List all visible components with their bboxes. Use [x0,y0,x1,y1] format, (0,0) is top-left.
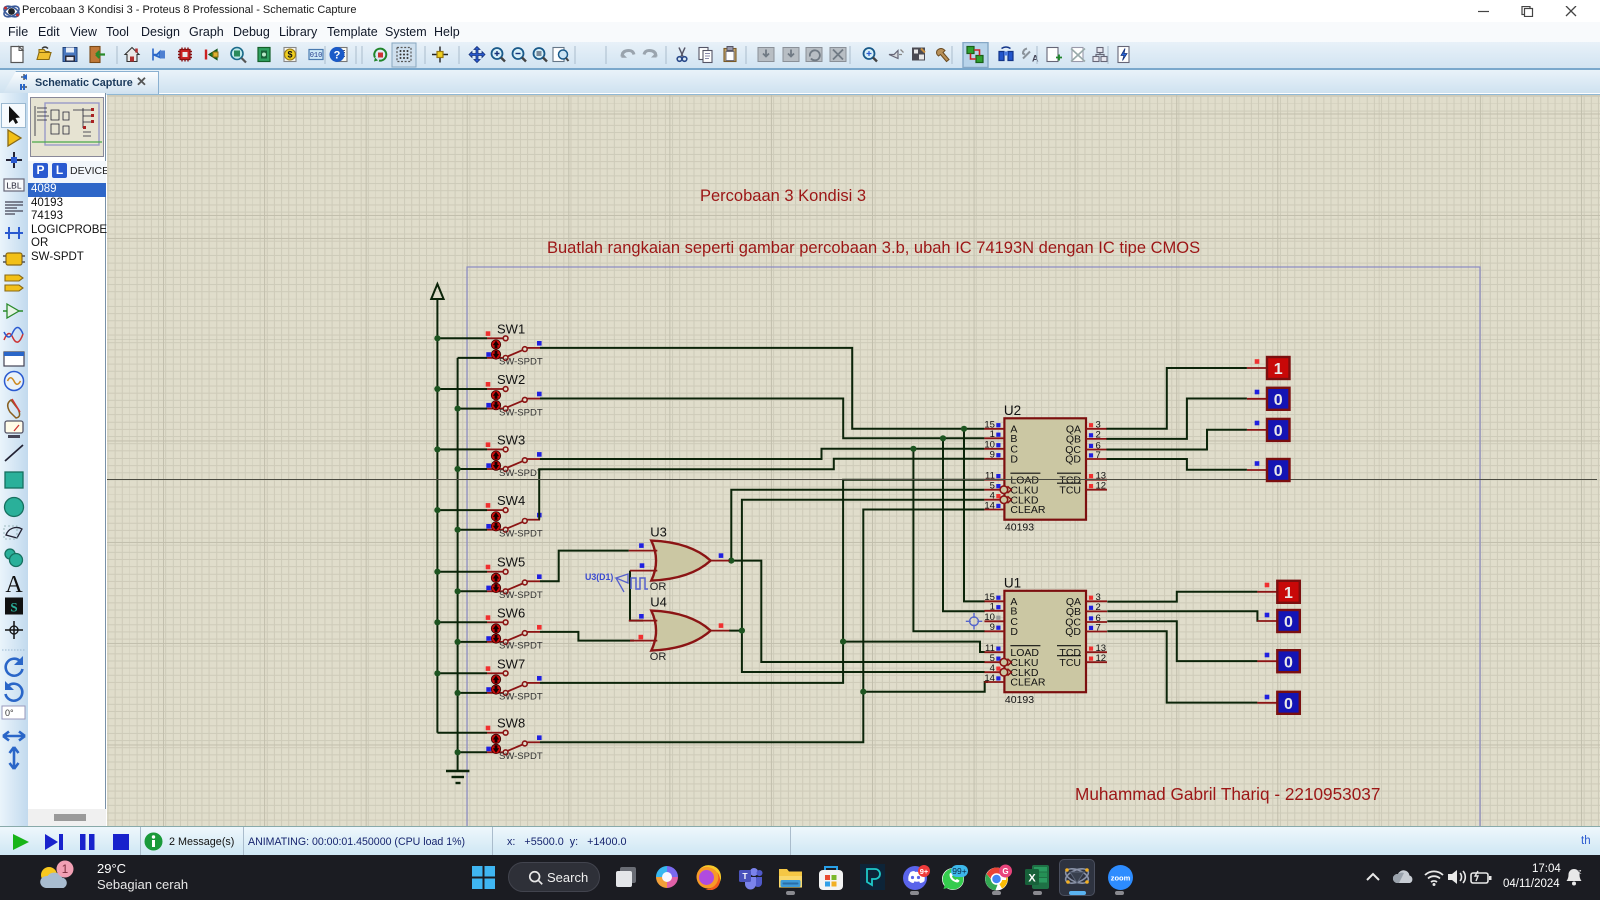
taskbar app icons group 2 [0,854,1,856]
svg-text:SW1: SW1 [497,321,525,336]
power symbol +V [431,284,443,299]
wire U3 output to U2 pin 5 CLKU [729,490,984,561]
mouse cursor crosshair [966,613,983,630]
wire long horizontal net at y=479.5 [107,479,1597,481]
junction power rail / SW1 [434,335,440,341]
svg-text:zoom: zoom [1111,874,1131,883]
svg-text:010: 010 [310,52,323,60]
pin 2 QB [1086,438,1107,440]
pin 1 B [984,610,1004,612]
pin 3 QA [1086,600,1107,602]
svg-text:X: X [1028,873,1036,885]
pin 15 A [984,428,1004,430]
pin 14 CLEAR [984,509,1004,511]
IC U2 40193 counter [984,403,1107,534]
junction ground rail / SW4 [455,527,461,533]
junction CLEAR bus [860,689,866,695]
svg-text:0: 0 [1274,423,1283,440]
copilot [654,864,680,890]
junction power rail / SW5 [434,569,440,575]
wire SW8 pole to CLEAR bus [540,510,984,743]
junction power rail / SW3 [434,446,440,452]
wire U2 QD to logic probe P4 [1106,459,1247,470]
svg-text:9+: 9+ [920,867,929,876]
svg-text:z: z [1578,869,1582,876]
svg-text:1: 1 [1284,585,1293,602]
pin 11 LOAD [984,651,1004,653]
svg-text:0: 0 [1274,463,1283,480]
overview minimap [30,97,104,157]
zoom at 1107 [1107,864,1134,891]
pin 13 TCD [1086,479,1107,481]
svg-text:14: 14 [984,673,995,684]
svg-text:0: 0 [1284,654,1293,671]
svg-text:SW4: SW4 [497,493,525,508]
svg-text:0: 0 [1284,696,1293,713]
excel at 1025 [1025,864,1050,890]
pin 2 QB [1086,610,1107,612]
discord at 902 [902,864,930,892]
svg-text:40193: 40193 [1005,522,1034,534]
firefox [695,864,721,890]
wire U2 QA to logic probe P1 [1106,368,1247,429]
svg-text:QD: QD [1065,626,1081,638]
svg-text:9: 9 [990,450,995,461]
wire U3 input B riser to U4 input A [630,571,643,621]
pin 7 QD [1086,458,1107,460]
svg-text:SW2: SW2 [497,372,525,387]
svg-text:1: 1 [62,864,68,876]
tray [1364,869,1384,885]
schematic sheet border [467,267,1480,867]
op-amp style OR gate U3 [629,525,730,593]
svg-text:U3(D1): U3(D1) [585,572,613,582]
wire SW3 pole to U2 pin 10 C with branch to U1 D [540,449,984,459]
svg-text:SW-SPDT: SW-SPDT [499,468,543,479]
logic probe showing 0 [1247,388,1290,410]
junction U4 output node [739,628,745,634]
weather [38,860,84,896]
switch SW8 (SW-SPDT) [437,716,542,762]
pin 12 TCU [1086,661,1107,663]
svg-text:SW3: SW3 [497,432,525,447]
pin 11 LOAD [984,479,1004,481]
wire SW6 pole to U4 input B [540,632,634,641]
junction LOAD bus [840,639,846,645]
logic probe showing 0 [1257,692,1300,714]
junction power rail / SW6 [434,619,440,625]
junction node C bus [910,446,916,452]
svg-text:D: D [1010,626,1018,638]
svg-text:?: ? [334,50,341,62]
svg-text:12: 12 [1096,653,1107,664]
pin 7 QD [1086,631,1107,633]
junction ground rail / SW7 [455,690,461,696]
pin 3 QA [1086,428,1107,430]
svg-text:2: 2 [1096,430,1101,441]
wire SW5 pole to U3 input A [540,551,629,582]
svg-text:40193: 40193 [1005,694,1034,706]
svg-text:1: 1 [990,429,995,440]
svg-text:$: $ [287,50,292,60]
wire SW7 pole to LOAD bus [540,480,984,683]
svg-text:Buatlah rangkaian seperti gamb: Buatlah rangkaian seperti gambar percoba… [547,239,1200,257]
clock generator probe U3(D1) [585,572,648,592]
wire U2 QC to logic probe P3 [1106,430,1247,450]
wire U2 QB to logic probe P2 [1106,399,1247,439]
svg-text:TCU: TCU [1059,657,1081,669]
svg-text:SW-SPDT: SW-SPDT [499,751,543,762]
pin 1 B [984,437,1004,439]
svg-text:12: 12 [1096,481,1107,492]
pin 9 D [984,458,1004,460]
junction U3 output node [728,558,734,564]
junction node A bus [961,426,967,432]
svg-text:SW-SPDT: SW-SPDT [499,692,543,703]
pin 6 QC [1086,621,1107,623]
svg-text:U3: U3 [650,525,667,540]
task view [613,864,639,890]
junction node B bus [940,435,946,441]
search pill [508,862,600,892]
junction power rail / SW4 [434,507,440,513]
wire branch U2 A to U1 A [964,429,985,602]
wire U3 output branch to U1 pin 5 CLKU [731,561,984,662]
wire U1 QB to logic probe P6 [1107,611,1258,621]
svg-text:1: 1 [1274,361,1283,378]
svg-text:A: A [5,572,23,598]
chrome at 984 [984,864,1012,892]
svg-text:CLEAR: CLEAR [1010,677,1045,689]
pin 14 CLEAR [984,681,1004,683]
pin 4 CLKD [984,671,1004,673]
device list [28,183,106,264]
wire CLEAR bus branch to U1 pin 14 [863,682,988,692]
op-amp style OR gate U4 [629,595,730,663]
svg-text:SW-SPDT: SW-SPDT [499,407,543,418]
svg-text:QD: QD [1065,454,1081,466]
junction ground rail / SW2 [455,406,461,412]
svg-text:1: 1 [990,602,995,613]
svg-text:SW-SPDT: SW-SPDT [499,357,543,368]
switch SW1 (SW-SPDT) [437,321,542,367]
U3 input/output state squares [639,543,644,548]
svg-text:TCU: TCU [1059,484,1081,496]
svg-text:G: G [1002,867,1008,876]
svg-text:U4: U4 [650,595,667,610]
svg-text:T: T [742,871,748,881]
svg-text:14: 14 [984,500,995,511]
svg-text:OR: OR [650,581,667,593]
switch SW5 (SW-SPDT) [437,555,542,601]
svg-text:9: 9 [990,622,995,633]
bottom scrollbar [28,809,106,826]
pin 5 CLKU [984,489,1004,491]
wire U1 QA to logic probe P5 [1107,592,1257,602]
start [472,866,495,889]
switch SW3 (SW-SPDT) [437,432,542,478]
svg-text:7: 7 [1096,450,1101,461]
svg-text:7: 7 [1096,622,1101,633]
file explorer at x 778 [778,866,803,890]
switch SW6 (SW-SPDT) [437,605,542,651]
svg-text:SW8: SW8 [497,716,525,731]
U4 input/output state squares [639,614,644,619]
pin 10 C [984,448,1004,450]
pin 13 TCD [1086,651,1107,653]
wire branch U2 B to U1 B [943,438,985,611]
svg-text:SW7: SW7 [497,656,525,671]
ground symbol [446,770,469,772]
svg-text:A: A [1032,54,1039,64]
wire U4 output to U2 pin 4 CLKD [729,500,984,631]
junction ground rail / SW8 [455,749,461,755]
svg-text:99+: 99+ [952,866,966,876]
junction ground rail / SW6 [455,639,461,645]
pin 4 CLKD [984,499,1004,501]
junction power rail / SW2 [434,386,440,392]
svg-text:SW-SPDT: SW-SPDT [499,590,543,601]
logic probe showing 1 [1257,581,1300,603]
svg-text:D: D [1010,453,1018,465]
pin 12 TCU [1086,489,1107,491]
wire U4 output branch to U1 pin 4 CLKD [742,631,985,672]
proteus active at 1059 [1059,859,1095,896]
P L DEVICES header [28,161,106,183]
svg-text:Muhammad Gabril Thariq - 22109: Muhammad Gabril Thariq - 2210953037 [1075,784,1380,804]
logic probe showing 0 [1257,610,1300,632]
logic probe showing 0 [1257,650,1300,672]
switch SW4 (SW-SPDT) [437,493,542,539]
wire U1 QC to logic probe P7 [1107,621,1257,661]
wire power rail vertical [436,338,438,732]
junction ground rail / SW3 [455,466,461,472]
wire SW1 pole to U2 pin 15 A with branch to U1 [540,348,984,429]
svg-text:Percobaan 3 Kondisi 3: Percobaan 3 Kondisi 3 [700,187,866,205]
pin 10 C [984,620,1004,622]
svg-text:0°: 0° [5,708,14,718]
whatsapp at 941 [941,864,969,892]
IC U1 40193 counter [984,575,1107,706]
svg-text:SW6: SW6 [497,605,525,620]
junction ground rail / SW5 [455,588,461,594]
teams [737,864,763,890]
pin 5 CLKU [984,661,1004,663]
svg-text:LBL: LBL [6,181,21,191]
ms store at 818 [818,864,844,891]
pin 6 QC [1086,449,1107,451]
pin 15 A [984,600,1004,602]
junction power rail / SW7 [434,670,440,676]
svg-text:SW-SPDT: SW-SPDT [499,529,543,540]
svg-text:OR: OR [650,651,667,663]
wire SW4 pole to U2 pin 9 D [539,459,984,520]
dark app at 860 [860,864,885,890]
svg-text:U2: U2 [1004,403,1021,418]
switch SW7 (SW-SPDT) [437,656,542,702]
wire U1 QD to logic probe P8 [1107,631,1257,702]
svg-text:SW5: SW5 [497,555,525,570]
wire LOAD bus branch to U1 pin 11 [843,642,985,652]
wire ground rail vertical [457,358,459,771]
logic probe showing 0 [1247,419,1290,441]
svg-text:SW-SPDT: SW-SPDT [499,641,543,652]
logic probe showing 1 [1247,357,1290,379]
svg-text:U1: U1 [1004,575,1021,590]
wire branch U2 C to U1 pin 9 D [913,449,984,632]
svg-text:0: 0 [1284,614,1293,631]
svg-text:S: S [10,600,17,615]
svg-text:CLEAR: CLEAR [1010,504,1045,516]
svg-text:0: 0 [1274,392,1283,409]
svg-text:2: 2 [1096,602,1101,613]
switch SW2 (SW-SPDT) [437,372,542,418]
pin 9 D [984,630,1004,632]
logic probe showing 0 [1247,459,1290,481]
wire SW2 pole to U2 pin 1 B with branch to U1 [540,399,984,439]
